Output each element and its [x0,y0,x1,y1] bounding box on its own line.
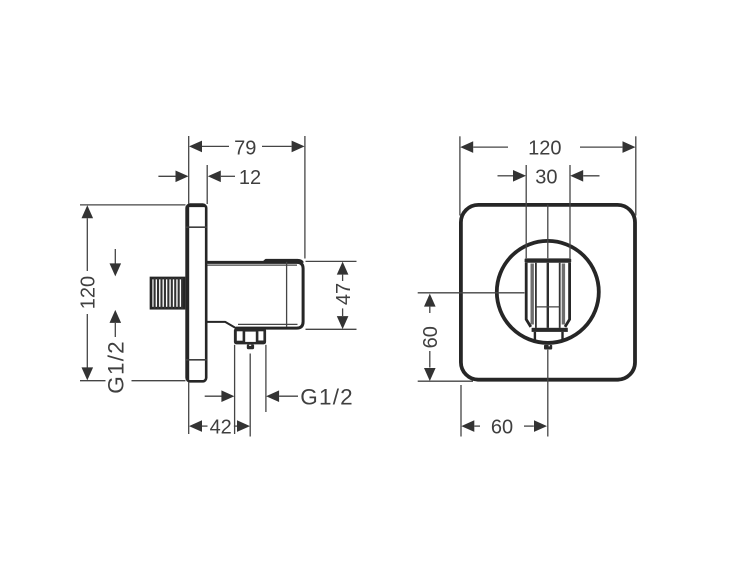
dimension 79 line left segment [202,145,229,147]
hose-outlet nut side view [234,328,266,344]
dimension 79 arrow left [189,141,202,153]
dimension 120 arrow down [82,367,94,380]
holder left inner line [535,263,537,328]
plate top edge band [188,205,206,207]
dimension 47 line lower [342,308,344,316]
svg-text:120: 120 [528,137,561,159]
body inner top line [208,264,298,266]
holder top bar front view [525,258,572,262]
holder bottom bar [532,328,568,332]
outlet nipple tip front view [544,345,552,350]
dim 60 left line lower [429,351,431,368]
dimension 42 tail right [234,425,237,427]
svg-text:60: 60 [491,416,513,438]
outlet centerline [249,354,251,437]
dim 60 left line upper [429,307,431,313]
vertical centerline upper [547,205,549,259]
svg-text:60: 60 [420,326,442,348]
dimension 47 arrow down [337,316,349,329]
dimension 42 arrow right [237,420,250,432]
front dim 120 arrow left [460,141,473,153]
outlet G1/2 arrow left [221,390,234,402]
dim 30 arrow right [570,170,583,182]
extension line body bottom right [306,328,357,330]
wall plate front view (rounded square) [461,205,635,380]
dimension 12 arrow right [208,171,221,183]
svg-text:79: 79 [234,138,256,160]
inlet dim tail upper [114,249,116,264]
extension line holder right [569,165,571,258]
svg-text:42: 42 [210,416,232,438]
svg-text:30: 30 [535,167,557,189]
outlet G1/2 tail right [279,395,298,397]
extension line square left lower [460,385,462,437]
dim 60 bottom tail right [524,425,534,427]
dimension 47 arrow up [337,262,349,275]
dimension 12 tail left [158,175,177,177]
dimension 79 arrow right [292,141,305,153]
svg-text:47: 47 [333,283,355,305]
dim 60 bottom arrow right [534,420,547,432]
extension line wall plane lower [188,383,190,435]
outlet G1/2 arrow right [266,390,279,402]
outlet thread right edge line [265,345,267,412]
inlet dim arrow up [110,310,122,323]
holder right outer edge [565,263,570,327]
svg-text:12: 12 [239,167,261,189]
holder neck right edge [561,332,563,342]
front dim 120 arrow right [623,141,636,153]
dim 60 left arrow down [424,368,436,381]
extension line plate bottom left b [132,380,186,382]
holder mid horizontal line [537,306,560,308]
extension line holder left [525,165,527,258]
holder left flange band [531,264,534,325]
plate corner tangent line lower [186,359,207,361]
outlet body bottom jog toward plate [207,322,237,329]
dimension 120 arrow up [82,205,94,218]
extension line square right [635,136,637,215]
outlet thread left edge line [234,345,236,434]
dimension 120 line lower [86,314,88,368]
dim 60 left arrow up [424,294,436,307]
inlet dim tail lower [114,323,116,337]
outlet body raised front step [264,260,303,263]
holder left outer edge [526,263,531,327]
front dim 120 line left [473,146,508,148]
dimension 42 tail left [202,425,208,427]
plate corner tangent line upper [186,226,207,228]
dimension 12 tail right [221,175,235,177]
extension line plate front [206,165,208,204]
body inner bottom line [238,323,298,325]
extension line body top right [306,260,357,262]
plate central circular recess [497,241,599,343]
holder neck left edge [534,332,536,342]
wall plate (escutcheon) side profile [187,205,207,382]
dim 60 bottom arrow left [461,420,474,432]
dim 30 arrow left [513,170,526,182]
extension line plate top left [80,204,186,206]
extension line square bottom [418,380,473,382]
dimension 79 line right segment [262,145,292,147]
inlet dim arrow down [110,263,122,276]
dimension 120 line upper [86,218,88,271]
outlet nipple tip side view [247,344,254,349]
dimension 12 arrow left [176,171,189,183]
extension line square left [459,136,461,215]
front dim 120 line right [580,146,622,148]
extension line plate bottom left a [80,380,106,382]
svg-text:G1/2: G1/2 [104,340,129,394]
holder center rib [547,263,549,328]
holder right inner line [559,263,561,328]
dim 30 tail right [583,175,599,177]
dim 60 bottom tail left [474,425,480,427]
dimension 42 arrow left [189,420,202,432]
extension line wall plane upper [188,136,190,204]
dimension 47 line upper [342,275,344,281]
outlet G1/2 tail left [205,395,222,397]
body end-cap separation line [286,262,288,327]
svg-text:120: 120 [78,276,100,309]
horizontal centerline left [418,292,525,294]
plate back edge thick band [186,206,189,380]
dim 30 tail left [498,175,514,177]
vertical centerline lower [547,350,549,437]
svg-text:G1/2: G1/2 [300,384,354,409]
outlet body outline side view [207,262,304,328]
holder right flange band [562,264,565,325]
threaded wall inlet stub G1/2 (hatched) [151,278,184,309]
extension line body front [304,136,306,259]
